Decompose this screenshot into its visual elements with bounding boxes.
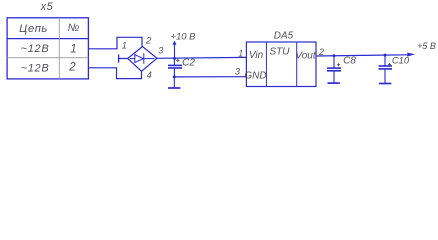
power wire bridge to DA5 Vin	[157, 56, 246, 59]
junction node on ground rail	[173, 75, 176, 78]
C8 polarity plus	[337, 63, 340, 66]
svg-text:1: 1	[122, 41, 127, 51]
ground bar	[168, 87, 180, 89]
table inner grid lines	[7, 18, 88, 79]
C2 bottom lead	[173, 68, 175, 77]
junction node at C2 top	[173, 57, 176, 60]
junction node at C8	[333, 54, 336, 57]
svg-text:Vout: Vout	[295, 50, 316, 61]
capacitor C10 plates	[379, 66, 393, 69]
ground rail to DA5 GND	[174, 76, 246, 78]
junction node at C10	[384, 54, 387, 57]
bridge rectifier diamond	[128, 47, 157, 72]
wire row2 to bridge bottom	[88, 68, 141, 79]
+10V flag shaft	[174, 44, 176, 58]
svg-text:~12В: ~12В	[21, 43, 50, 55]
+5V arrowhead	[407, 53, 415, 57]
svg-text:+5 В: +5 В	[417, 41, 436, 51]
connector X5 table	[7, 18, 88, 79]
diode inside bridge	[130, 53, 155, 64]
terminal T-bar at bridge pin1	[119, 54, 128, 62]
svg-text:GND: GND	[244, 70, 266, 81]
svg-text:№: №	[68, 22, 80, 34]
C10 ground bar	[379, 83, 391, 85]
C8 ground bar	[328, 82, 340, 84]
regulator DA5 box	[246, 42, 316, 87]
DA5 inner divider right	[296, 42, 298, 87]
+10V arrowhead	[173, 41, 177, 45]
capacitor C8 top lead	[333, 56, 335, 68]
svg-text:~12В: ~12В	[21, 62, 50, 74]
svg-text:С10: С10	[392, 54, 410, 65]
svg-text:Vin: Vin	[249, 50, 264, 61]
svg-text:3: 3	[158, 46, 163, 56]
svg-text:С2: С2	[182, 57, 195, 68]
DA5 inner divider left	[265, 42, 267, 87]
svg-text:С8: С8	[343, 55, 356, 66]
capacitor C2 plates	[168, 65, 182, 68]
capacitor C2 top lead	[173, 58, 175, 65]
svg-text:Цепь: Цепь	[19, 23, 48, 35]
capacitor C10 top lead	[384, 55, 386, 66]
svg-text:х5: х5	[40, 1, 54, 13]
svg-text:1: 1	[238, 49, 243, 59]
svg-text:4: 4	[147, 70, 152, 80]
C10 polarity plus	[388, 63, 391, 66]
ground symbol stem	[173, 77, 175, 88]
svg-text:1: 1	[70, 43, 76, 55]
power wire DA5 Vout to +5V	[316, 55, 408, 56]
wire row1 to bridge top	[88, 37, 142, 49]
C2 polarity plus	[176, 59, 179, 62]
C8 bottom lead	[333, 71, 335, 83]
svg-text:3: 3	[235, 66, 240, 76]
svg-text:DA5: DA5	[274, 31, 294, 42]
svg-text:2: 2	[68, 61, 76, 73]
svg-text:2: 2	[145, 36, 152, 47]
capacitor C8 plates	[327, 68, 341, 71]
svg-text:+10 В: +10 В	[171, 31, 196, 42]
svg-text:STU: STU	[270, 46, 291, 57]
C10 bottom lead	[384, 69, 386, 83]
